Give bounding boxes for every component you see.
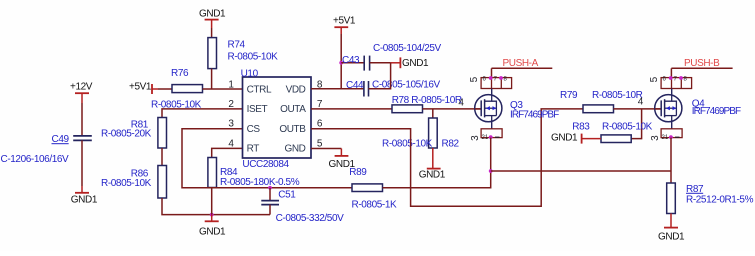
wire OUTB pin 6 routed to R79 xyxy=(311,109,583,206)
svg-text:R87: R87 xyxy=(686,184,704,195)
wire OUTA pin 7 to R78 xyxy=(311,108,392,110)
svg-text:R-0805-10R: R-0805-10R xyxy=(592,90,643,101)
svg-text:C-0805-332/50V: C-0805-332/50V xyxy=(276,213,345,224)
svg-text:4: 4 xyxy=(638,96,644,107)
svg-text:RT: RT xyxy=(247,144,260,155)
wire R86 to bottom rail xyxy=(162,198,270,215)
net label PUSH-B xyxy=(671,58,732,78)
capacitor C44 xyxy=(346,79,441,96)
svg-text:2: 2 xyxy=(228,99,234,110)
svg-text:R83: R83 xyxy=(572,121,590,132)
svg-text:ISET: ISET xyxy=(247,104,268,115)
svg-text:R-0805-10K: R-0805-10K xyxy=(228,52,279,63)
ground GND1 mid bottom xyxy=(199,215,226,238)
svg-text:VDD: VDD xyxy=(286,84,306,95)
svg-text:PUSH-B: PUSH-B xyxy=(684,58,720,69)
wire VDD pin 8 to C44 xyxy=(311,88,364,90)
svg-text:4: 4 xyxy=(228,138,234,149)
ground GND1 below R82 xyxy=(419,148,446,181)
junction C51 tap xyxy=(268,186,272,190)
resistor R87 xyxy=(667,183,754,214)
power +5V1 top xyxy=(333,15,356,34)
svg-text:+5V1: +5V1 xyxy=(333,15,356,26)
svg-text:+5V1: +5V1 xyxy=(129,82,152,93)
svg-text:GND1: GND1 xyxy=(402,58,429,69)
ground GND1 pin 5 xyxy=(311,149,356,171)
svg-text:5: 5 xyxy=(469,76,480,82)
capacitor C49 xyxy=(1,134,92,165)
svg-text:R82: R82 xyxy=(442,139,460,150)
svg-text:GND1: GND1 xyxy=(199,8,226,19)
wire R79 to Q4 gate xyxy=(614,108,662,110)
net label PUSH-A xyxy=(492,58,553,78)
resistor R76 xyxy=(151,68,203,110)
svg-text:3: 3 xyxy=(228,119,234,130)
junction bottom rail xyxy=(210,213,214,217)
ground GND1 below R87 xyxy=(658,214,685,243)
svg-text:R-0805-10K: R-0805-10K xyxy=(101,178,152,189)
svg-text:3: 3 xyxy=(470,135,481,141)
svg-text:OUTA: OUTA xyxy=(280,104,306,115)
svg-text:R-0805-1K: R-0805-1K xyxy=(352,199,397,210)
svg-text:R76: R76 xyxy=(171,68,189,79)
power +5V1 left xyxy=(129,82,158,95)
resistor R89 xyxy=(349,167,397,211)
svg-text:IRF7469PBF: IRF7469PBF xyxy=(692,106,741,117)
ground GND1 right of C43 xyxy=(391,57,429,69)
svg-text:C43: C43 xyxy=(342,55,360,66)
svg-text:GND1: GND1 xyxy=(658,231,685,242)
svg-text:CS: CS xyxy=(247,124,261,135)
wire +5V1 down to VDD node xyxy=(340,34,342,89)
wire source rail to Q4/R87 xyxy=(491,170,671,172)
svg-text:R74: R74 xyxy=(228,39,246,50)
resistor R78 xyxy=(392,95,462,113)
ground GND1 below C49 xyxy=(71,186,98,206)
IC U10 UCC28084 xyxy=(241,68,311,170)
svg-text:R-2512-0R1-5%: R-2512-0R1-5% xyxy=(686,195,754,206)
wire R81 to R86 xyxy=(161,148,163,166)
svg-text:C-1206-106/16V: C-1206-106/16V xyxy=(1,154,70,165)
wire R84 bottom to rail xyxy=(211,188,213,215)
wire C49 to ground xyxy=(81,140,83,186)
wire RT pin 4 to R84 xyxy=(212,148,243,157)
ground GND1 left of R83 xyxy=(551,133,601,144)
svg-text:R-0805-10K: R-0805-10K xyxy=(382,139,433,150)
svg-text:OUTB: OUTB xyxy=(279,124,306,135)
resistor R86 xyxy=(101,166,167,199)
svg-text:IRF7469PBF: IRF7469PBF xyxy=(510,110,559,121)
resistor R81 xyxy=(101,118,167,149)
wire gnd to R74 xyxy=(211,28,213,38)
wire Q3 source down xyxy=(490,138,492,171)
svg-text:21: 21 xyxy=(662,135,669,141)
svg-text:C51: C51 xyxy=(278,189,296,200)
svg-text:R-0805-180K-0.5%: R-0805-180K-0.5% xyxy=(220,177,300,188)
resistor R83 xyxy=(572,109,652,143)
resistor R74 xyxy=(208,38,278,69)
wire C44 right up to gnd branch xyxy=(369,63,391,89)
wire R89 to Q3 source node xyxy=(383,171,491,188)
svg-text:R-0805-20K: R-0805-20K xyxy=(101,128,152,139)
svg-text:3: 3 xyxy=(650,135,661,141)
wire +5V1 to R76 xyxy=(158,88,172,90)
svg-text:PUSH-A: PUSH-A xyxy=(503,58,539,69)
transistor Q3 IRF7469PBF xyxy=(469,76,559,141)
svg-text:GND1: GND1 xyxy=(419,170,446,181)
svg-text:CTRL: CTRL xyxy=(247,84,272,95)
svg-text:5: 5 xyxy=(649,76,660,82)
svg-text:R78 R-0805-10R: R78 R-0805-10R xyxy=(392,95,462,106)
svg-text:R-0805-10K: R-0805-10K xyxy=(602,121,653,132)
svg-text:C49: C49 xyxy=(52,134,70,145)
wire CS pin 3 down to long net xyxy=(182,129,352,188)
svg-text:21: 21 xyxy=(482,135,489,141)
svg-text:GND: GND xyxy=(284,144,305,155)
wire R78 to Q3 gate xyxy=(423,108,482,110)
svg-text:U10: U10 xyxy=(241,68,259,79)
svg-text:C44: C44 xyxy=(346,80,364,91)
resistor R82 xyxy=(382,109,459,150)
wire R74 to CTRL net xyxy=(211,69,213,89)
wire ISET pin 2 to R81 xyxy=(162,109,243,118)
wire Q4 source down to R87 xyxy=(670,138,672,183)
power +12V xyxy=(70,82,93,104)
svg-text:UCC28084: UCC28084 xyxy=(242,159,289,170)
transistor Q4 IRF7469PBF xyxy=(649,76,741,141)
svg-text:R79: R79 xyxy=(560,90,578,101)
svg-text:1: 1 xyxy=(228,79,234,90)
capacitor C51 xyxy=(261,188,344,224)
wire R76 to pin 1 CTRL xyxy=(203,88,243,90)
svg-text:GND1: GND1 xyxy=(71,195,98,206)
svg-text:C-0805-104/25V: C-0805-104/25V xyxy=(373,43,442,54)
resistor R79 xyxy=(560,90,643,113)
svg-text:GND1: GND1 xyxy=(329,159,356,170)
wire +12V to C49 xyxy=(81,103,83,136)
junction Q3 source node xyxy=(489,169,493,173)
junction C43 tap xyxy=(339,61,343,65)
svg-text:+12V: +12V xyxy=(70,82,93,93)
ground GND1 above R74 xyxy=(199,8,226,28)
svg-text:4: 4 xyxy=(458,98,464,109)
resistor R84 xyxy=(208,158,300,188)
svg-text:GND1: GND1 xyxy=(551,133,578,144)
svg-text:GND1: GND1 xyxy=(199,226,226,237)
capacitor C43 xyxy=(341,43,441,71)
